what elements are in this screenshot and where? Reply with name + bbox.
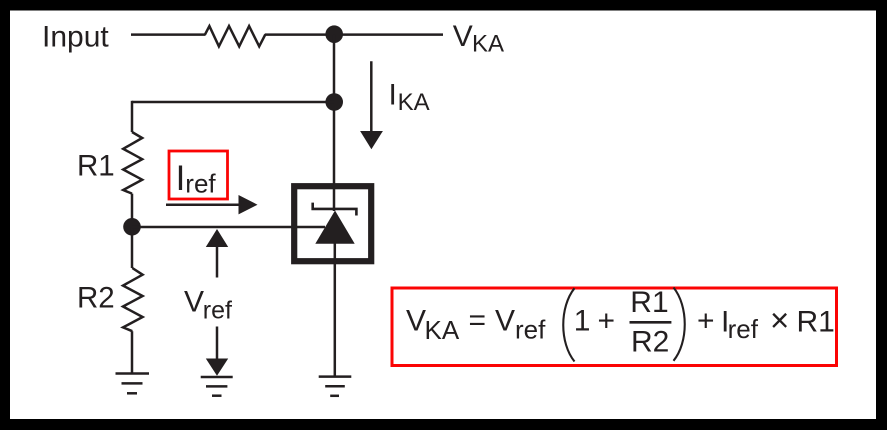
wire: Vref arrow lower shaft — [216, 327, 219, 360]
label Vref — [184, 285, 232, 324]
label Iref in red box — [169, 151, 228, 199]
wire: R1 top lead — [131, 101, 134, 132]
svg-text:V: V — [184, 285, 204, 318]
wire: feedback horizontal — [132, 101, 334, 104]
svg-text:R1: R1 — [77, 149, 115, 182]
svg-text:KA: KA — [398, 89, 430, 116]
wire: reference input to TL431 — [132, 226, 325, 229]
node: cathode junction — [325, 25, 343, 43]
wire: R2 top lead — [131, 227, 134, 268]
resistor R1 — [123, 132, 142, 194]
ground: below Vref arrow — [201, 377, 233, 396]
wire: anode to ground — [334, 243, 337, 377]
svg-text:R2: R2 — [77, 282, 115, 315]
ground: below R2 — [116, 374, 150, 394]
svg-text:R2: R2 — [631, 326, 669, 359]
svg-text:×: × — [770, 302, 789, 339]
wire: resistor to VKA terminal — [265, 33, 443, 36]
svg-text:Input: Input — [42, 20, 109, 53]
wire: R2 to ground — [131, 331, 134, 373]
wire: Input to series resistor — [131, 33, 206, 36]
svg-text:+: + — [598, 305, 616, 338]
svg-text:+: + — [697, 305, 715, 338]
svg-text:=: = — [469, 304, 487, 337]
arrow: Iref direction — [166, 195, 258, 214]
arrow: Vref down arrowhead — [206, 359, 228, 376]
svg-text:R1: R1 — [797, 306, 835, 339]
svg-text:I: I — [176, 159, 186, 198]
TL431 shunt regulator triangle — [315, 211, 354, 244]
svg-text:R1: R1 — [630, 286, 668, 319]
svg-text:ref: ref — [203, 296, 232, 324]
resistor R2 — [123, 268, 143, 331]
svg-text:KA: KA — [472, 31, 504, 58]
svg-text:I: I — [389, 78, 397, 111]
resistor: series input resistor — [205, 26, 265, 46]
svg-text:V: V — [406, 305, 426, 338]
svg-text:ref: ref — [185, 168, 216, 198]
arrow: Vref up arrowhead — [206, 229, 228, 247]
wire: R1 bottom lead — [131, 194, 134, 227]
wire: cathode vertical — [333, 35, 336, 211]
svg-text:ref: ref — [728, 314, 759, 344]
TL431 U1 package box — [294, 186, 371, 261]
ground: below TL431 — [319, 377, 352, 396]
svg-text:KA: KA — [425, 315, 460, 345]
arrow: IKA current — [360, 61, 383, 149]
wire: Vref arrow upper shaft — [216, 246, 219, 278]
TL431 cathode bar — [313, 203, 357, 216]
svg-text:ref: ref — [515, 314, 546, 344]
svg-text:1: 1 — [574, 305, 591, 338]
svg-text:V: V — [453, 20, 473, 53]
node: reference divider junction — [123, 218, 141, 236]
formula box (red) — [392, 288, 837, 366]
node: feedback junction — [325, 93, 343, 111]
formula: VKA = Vref (1 + R1/R2) + Iref x R1 — [406, 286, 835, 361]
svg-text:V: V — [495, 305, 515, 338]
